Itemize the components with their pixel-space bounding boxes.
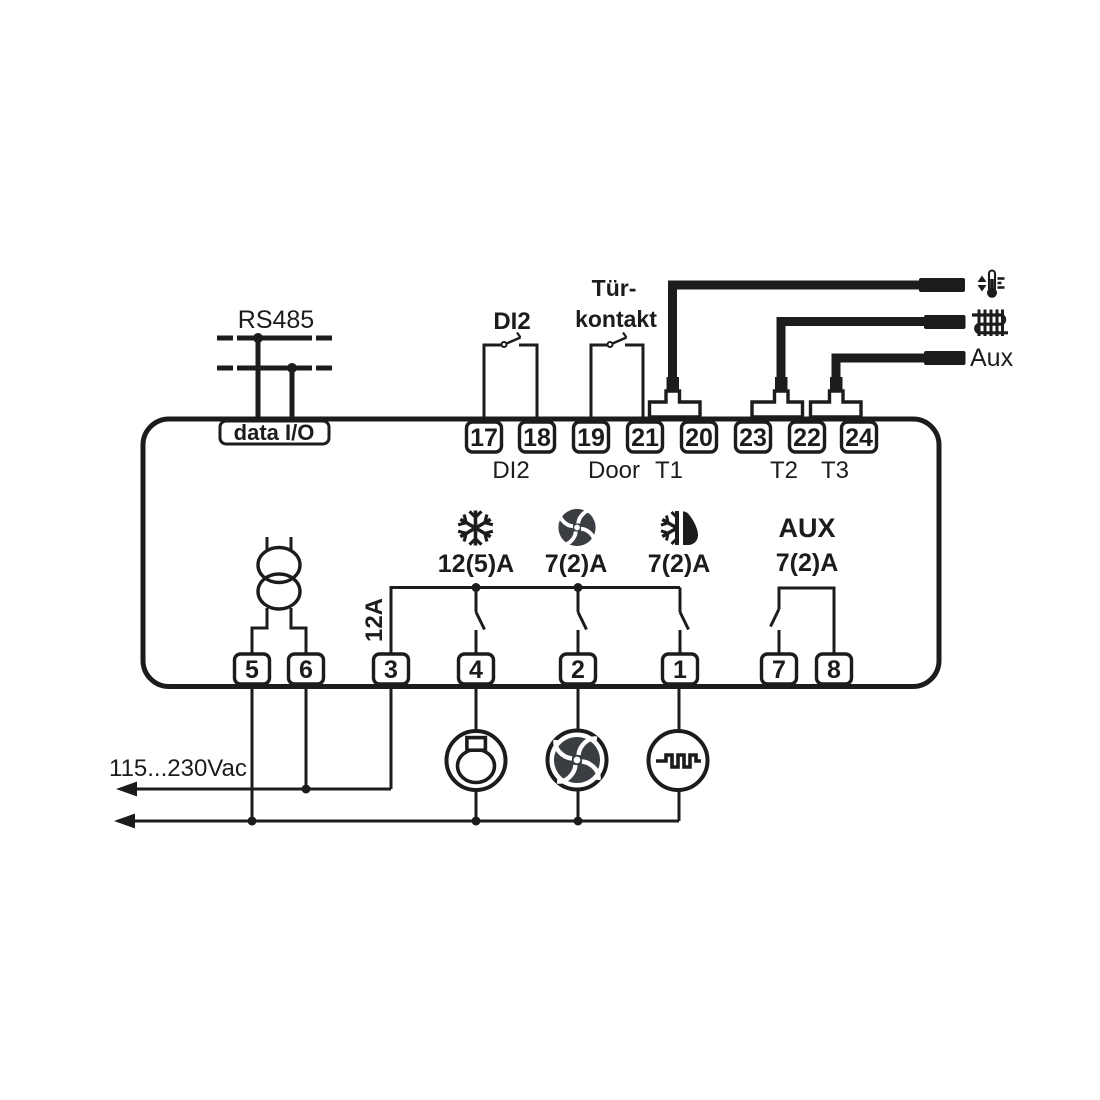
- terminal 21: [628, 422, 663, 452]
- svg-text:12A: 12A: [361, 598, 388, 642]
- svg-text:T1: T1: [655, 457, 683, 484]
- svg-text:T3: T3: [821, 457, 849, 484]
- svg-text:17: 17: [470, 424, 498, 452]
- svg-text:3: 3: [384, 656, 398, 684]
- svg-text:Door: Door: [588, 457, 640, 484]
- terminal 22: [790, 422, 825, 452]
- transformer T: [252, 537, 306, 654]
- fan load: [548, 731, 607, 790]
- svg-text:23: 23: [739, 424, 767, 452]
- junction dot bus at terminal 4: [472, 583, 481, 592]
- room sensor icon (thermometer): [978, 271, 1005, 298]
- junction dot terminal 5 on N: [248, 817, 257, 826]
- terminal 18: [520, 422, 555, 452]
- relay supply bus: [391, 588, 680, 655]
- wire terminal 3 to line L: [390, 684, 393, 789]
- svg-text:DI2: DI2: [492, 457, 529, 484]
- probe cable T3: [836, 358, 926, 379]
- terminal 23: [736, 422, 771, 452]
- probe body T1: [919, 278, 965, 292]
- door contact switch loop: [591, 333, 643, 420]
- terminal 7: [762, 654, 797, 684]
- svg-text:5: 5: [245, 656, 259, 684]
- probe cable T2: [781, 322, 926, 380]
- defrost icon (half snowflake half drop): [661, 511, 698, 545]
- terminal 1: [663, 654, 698, 684]
- defrost relay contact: [680, 588, 689, 655]
- svg-text:7(2)A: 7(2)A: [776, 549, 839, 577]
- probe plug T1: [650, 391, 701, 417]
- wire compressor to line N: [475, 790, 478, 821]
- aux relay contact: [771, 588, 835, 654]
- data I/O port: [220, 421, 329, 444]
- svg-text:7(2)A: 7(2)A: [648, 550, 711, 578]
- terminal 6: [289, 654, 324, 684]
- arrow line N: [114, 814, 135, 829]
- svg-text:20: 20: [685, 424, 713, 452]
- svg-text:19: 19: [577, 424, 605, 452]
- supply line N: [128, 820, 679, 823]
- junction dot terminal 6 on L: [302, 785, 311, 794]
- probe plug T3: [811, 391, 862, 417]
- svg-text:21: 21: [631, 424, 659, 452]
- terminal 8: [817, 654, 852, 684]
- junction dot compressor on N: [472, 817, 481, 826]
- svg-text:24: 24: [845, 424, 873, 452]
- DI2 switch loop: [484, 333, 537, 420]
- svg-text:2: 2: [571, 656, 585, 684]
- junction dot fan on N: [574, 817, 583, 826]
- fan relay contact: [578, 588, 587, 655]
- svg-text:7(2)A: 7(2)A: [545, 550, 608, 578]
- svg-text:kontakt: kontakt: [575, 306, 657, 332]
- evaporator sensor icon (coil): [972, 310, 1008, 337]
- junction dot RS485 B: [287, 363, 297, 373]
- svg-text:7: 7: [772, 656, 786, 684]
- terminal 24: [842, 422, 877, 452]
- cable gland T3: [830, 377, 843, 391]
- svg-text:Tür-: Tür-: [592, 275, 637, 301]
- svg-text:12(5)A: 12(5)A: [438, 550, 514, 578]
- probe body T3: [924, 351, 966, 365]
- terminal 19: [574, 422, 609, 452]
- defrost heater load: [649, 731, 708, 790]
- cable gland T1: [667, 377, 680, 391]
- terminal 5: [235, 654, 270, 684]
- svg-text:AUX: AUX: [778, 513, 835, 543]
- wire fan to line N: [577, 790, 580, 821]
- probe body T2: [924, 315, 966, 329]
- terminal 17: [467, 422, 502, 452]
- svg-text:Aux: Aux: [970, 344, 1014, 372]
- svg-text:RS485: RS485: [238, 306, 314, 334]
- terminal 3: [374, 654, 409, 684]
- supply line L: [130, 788, 391, 791]
- wire RS485 B to data I/O: [290, 368, 295, 421]
- RS485 bus line B: [217, 366, 332, 371]
- svg-text:6: 6: [299, 656, 313, 684]
- svg-text:18: 18: [523, 424, 551, 452]
- cable gland T2: [775, 377, 788, 391]
- RS485 bus line A: [217, 336, 332, 341]
- probe cable T1: [673, 285, 922, 379]
- svg-text:1: 1: [673, 656, 687, 684]
- junction dot bus at terminal 2: [574, 583, 583, 592]
- svg-text:data I/O: data I/O: [234, 420, 315, 445]
- terminal 2: [561, 654, 596, 684]
- terminal 20: [682, 422, 717, 452]
- probe plug T2: [752, 391, 803, 417]
- svg-text:8: 8: [827, 656, 841, 684]
- wire terminal 6 to line L: [305, 684, 308, 789]
- compressor relay contact: [476, 588, 485, 655]
- svg-text:115...230Vac: 115...230Vac: [109, 755, 247, 782]
- snowflake icon (compressor): [457, 511, 493, 546]
- svg-text:22: 22: [793, 424, 821, 452]
- terminal 4: [459, 654, 494, 684]
- wire terminal 2 to fan: [577, 684, 580, 732]
- wire terminal 5 to line N: [251, 684, 254, 821]
- svg-text:T2: T2: [770, 457, 798, 484]
- fan icon small: [558, 509, 595, 546]
- wire terminal 1 to defrost heater: [678, 684, 681, 732]
- compressor load M: [447, 731, 506, 790]
- arrow line L: [116, 782, 137, 797]
- controller box: [143, 419, 939, 687]
- svg-text:DI2: DI2: [493, 308, 530, 335]
- svg-text:4: 4: [469, 656, 483, 684]
- wire defrost heater to line N: [678, 790, 681, 821]
- wire RS485 A to data I/O: [256, 338, 261, 421]
- wire terminal 4 to compressor: [475, 684, 478, 732]
- junction dot RS485 A: [253, 333, 263, 343]
